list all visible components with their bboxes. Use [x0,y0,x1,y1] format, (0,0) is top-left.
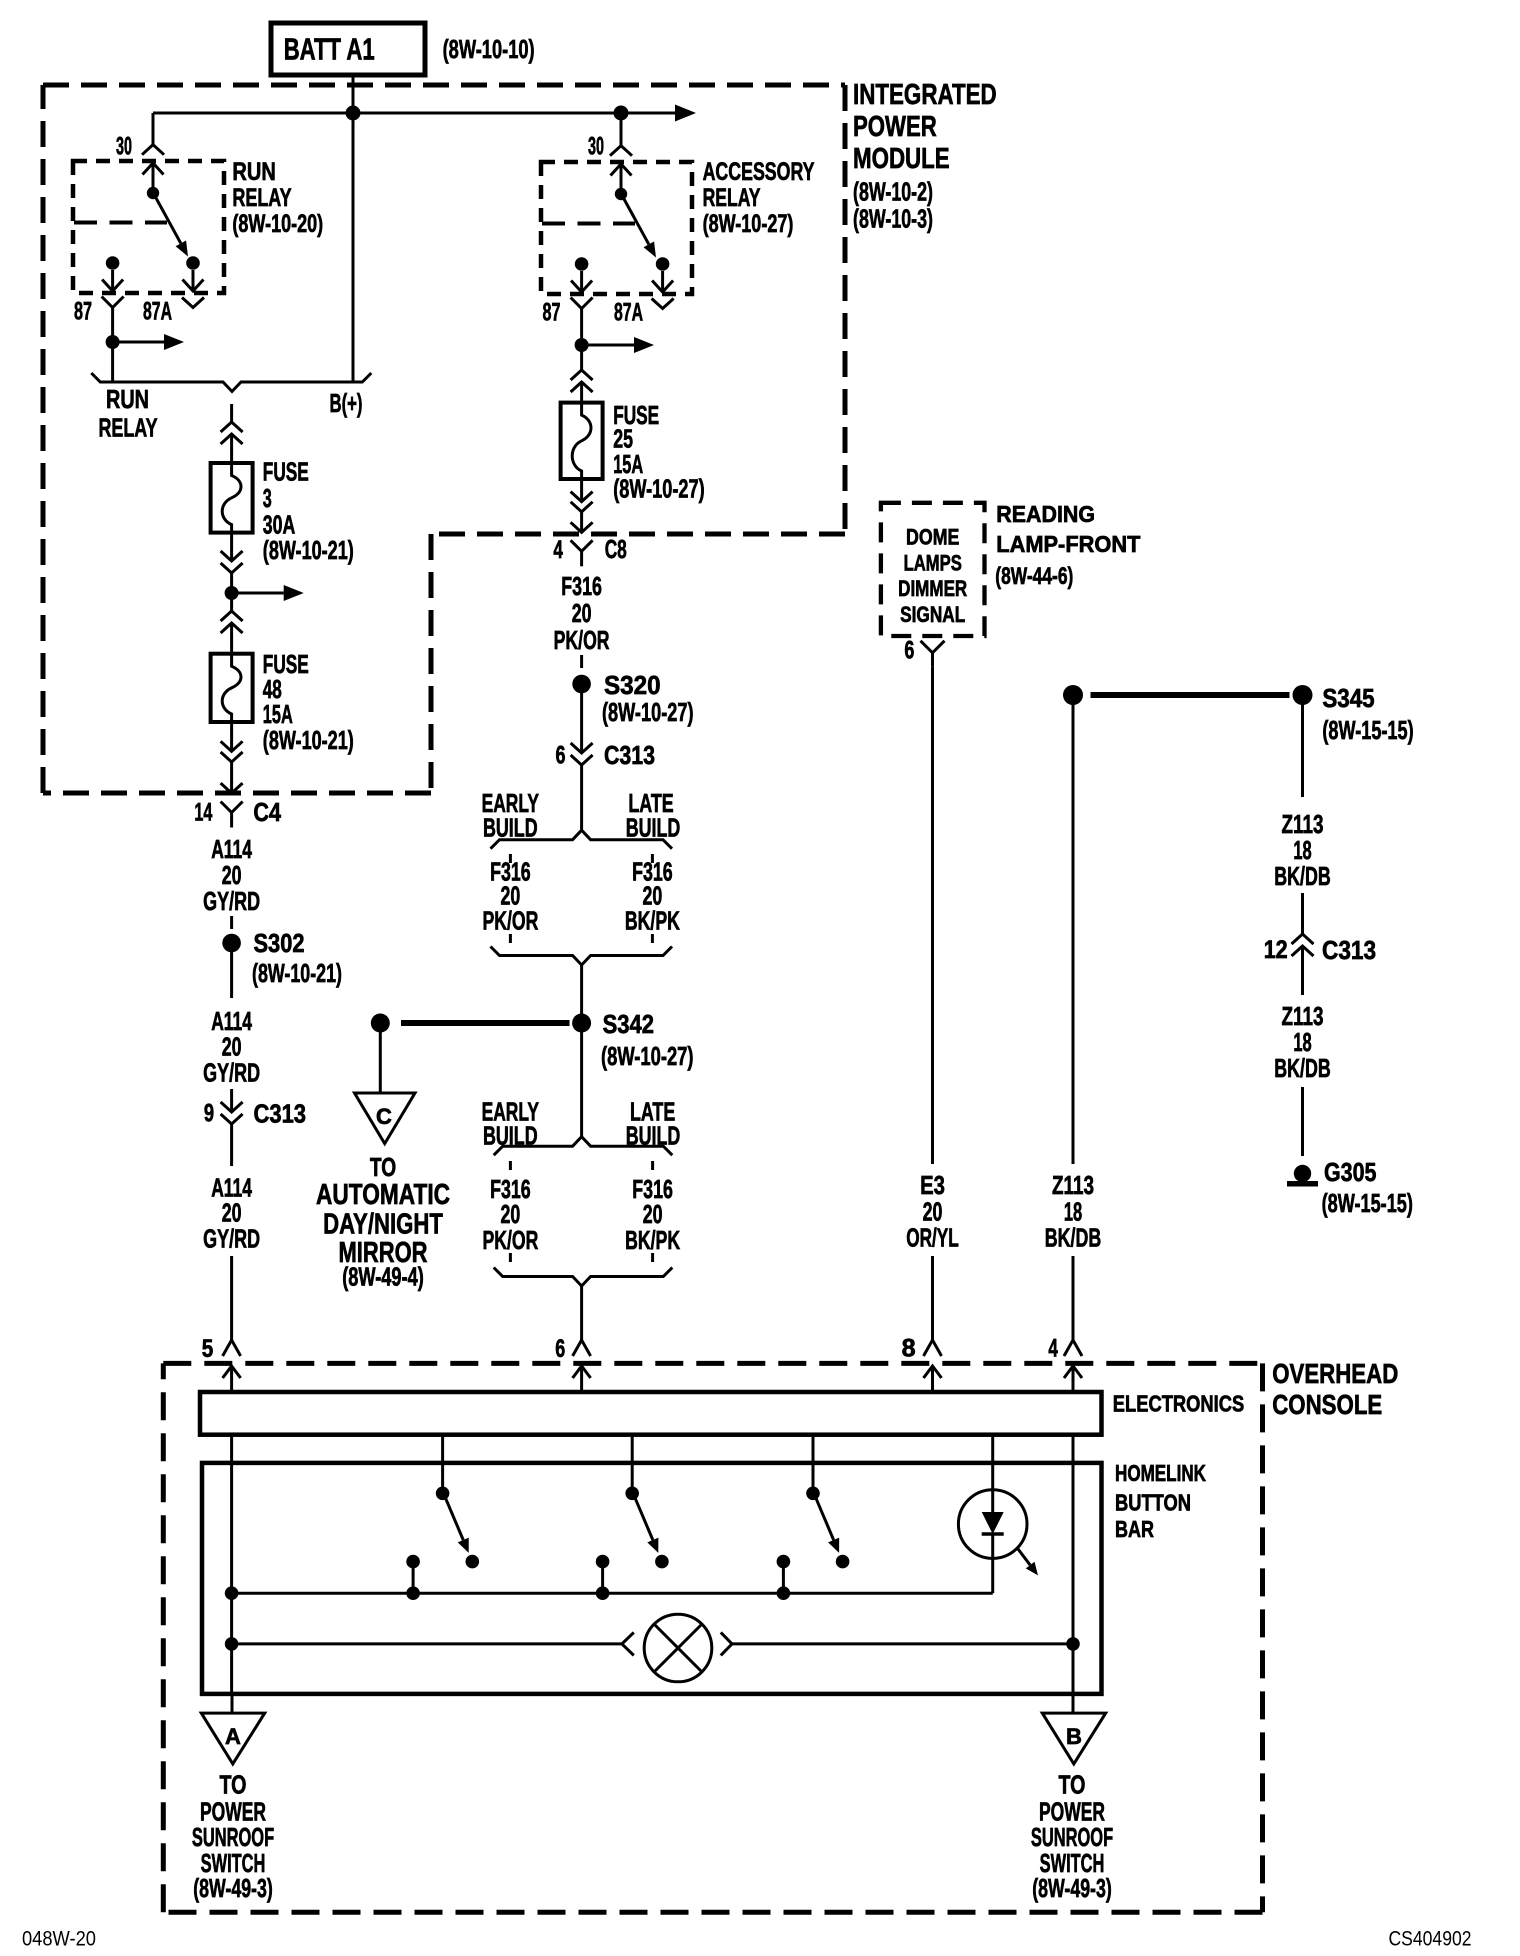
svg-text:S342: S342 [603,1009,654,1039]
svg-text:C4: C4 [253,797,281,827]
wire pin5 to triangle A [230,1593,233,1712]
svg-text:C313: C313 [254,1099,307,1129]
lamp bus right [732,1637,1080,1651]
svg-text:B: B [1066,1724,1082,1749]
connector C4 exit arrow [221,783,243,793]
svg-text:PK/OR: PK/OR [554,625,610,655]
fuse F25 [561,403,603,479]
run relay 87 terminal arrow [102,270,123,291]
svg-text:RELAY: RELAY [703,184,761,212]
console pin 8 [902,1335,942,1393]
dome box pin 6 [904,637,944,667]
homelink LED diode [982,1512,1004,1534]
dome lamps dimmer signal box [881,503,985,636]
svg-text:4: 4 [553,536,563,564]
svg-text:C: C [376,1104,392,1129]
switch 1 common dot [406,1555,420,1593]
wire pin5 through electronics [230,1435,233,1594]
reading lamp title [995,501,1140,590]
wire label Z113 18 BK/DB (upper right) [1274,809,1331,891]
run relay label [232,158,323,238]
splice S342 [371,1009,694,1071]
svg-text:(8W-49-4): (8W-49-4) [342,1262,424,1292]
svg-text:BATT A1: BATT A1 [284,31,375,66]
switch 2 pivot dot [625,1487,639,1501]
svg-text:BK/DB: BK/DB [1274,861,1331,891]
wire S342 down [580,1032,583,1137]
off-page connector A [201,1713,264,1764]
wire to console pin 4 [1072,1256,1075,1340]
fuse F3 [211,463,253,533]
svg-text:READING: READING [996,501,1095,527]
label TO AUTOMATIC DAY/NIGHT MIRROR [316,1152,450,1292]
electronics label [1113,1391,1244,1417]
wire label E3 20 OR/YL [906,1170,959,1253]
stub early (2a) [509,1161,512,1170]
junction dot below fuse 3 [225,586,239,600]
ground G305 [1287,1157,1413,1218]
svg-text:87A: 87A [614,299,643,327]
svg-text:RUN: RUN [232,158,275,186]
svg-text:8: 8 [902,1335,916,1363]
svg-text:87A: 87A [143,298,172,326]
pin 87 accessory relay [543,298,593,327]
wire BATT A1 to B(+) bus [352,75,355,113]
svg-text:BK/DB: BK/DB [1274,1053,1331,1083]
switch 1 pivot dot [436,1487,450,1501]
wire brace to fuse 3 [230,404,233,422]
console pin 6 [555,1335,590,1392]
run relay box [73,161,224,293]
svg-text:(8W-49-3): (8W-49-3) [193,1873,273,1903]
wire label F316 20 BK/PK (late 2) [625,1174,680,1255]
run relay coil divider [74,221,167,225]
svg-text:BAR: BAR [1115,1516,1154,1542]
electronics box [200,1392,1102,1435]
splice S320 [572,670,693,727]
off-page connector C to mirror [355,1093,416,1144]
svg-text:OR/YL: OR/YL [906,1223,959,1253]
svg-text:B(+): B(+) [330,388,363,418]
homelink LED wire lower [991,1534,994,1593]
connector C313 pin 6 [556,740,656,770]
lamp chevron left [622,1632,634,1655]
inline connector below fuse 3 [221,551,243,611]
brace RUN RELAY / B(+) [91,373,371,392]
footer sheet number [22,1928,96,1951]
wire accessory 87 down [580,323,583,371]
bus B+ horizontal with arrow [153,105,696,122]
arrow feed below fuse 3 [232,585,304,601]
overhead console dashed outline [163,1363,1262,1912]
label RUN RELAY [99,384,158,443]
inline connector above fuse 3 [221,422,243,463]
svg-text:(8W-10-27): (8W-10-27) [601,1041,694,1071]
switch 3 contact dot [836,1555,850,1569]
LED emission arrow [1018,1549,1038,1575]
accessory relay contact 87A dot [656,257,670,271]
console title [1272,1358,1398,1420]
wire to ground G305 [1301,1087,1304,1156]
svg-text:TO: TO [1059,1770,1086,1800]
label (8W-10-10) [443,34,535,64]
svg-text:DOME: DOME [906,525,959,550]
svg-text:DAY/NIGHT: DAY/NIGHT [323,1209,443,1241]
svg-text:LAMPS: LAMPS [904,550,962,575]
console lamp [644,1614,712,1682]
wire S320 down [580,693,583,753]
arrow accessory 87 feed [582,337,654,353]
lamp chevron right [721,1632,732,1655]
svg-text:SIGNAL: SIGNAL [900,602,965,627]
wire to console pin 5 [230,1256,233,1340]
switch 1 wire [441,1435,444,1494]
svg-text:LAMP-FRONT: LAMP-FRONT [996,531,1140,557]
svg-text:BUILD: BUILD [626,813,681,843]
svg-text:(8W-10-2): (8W-10-2) [853,177,933,207]
wire run relay 87 down [111,322,114,382]
svg-text:BUTTON: BUTTON [1115,1490,1191,1516]
svg-text:RUN: RUN [106,384,149,414]
inline connector above fuse 25 [571,370,593,403]
console pin 4 [1048,1335,1082,1393]
svg-text:PK/OR: PK/OR [482,1225,538,1255]
svg-text:AUTOMATIC: AUTOMATIC [316,1179,450,1211]
svg-text:(8W-10-27): (8W-10-27) [602,697,694,727]
svg-text:C313: C313 [604,740,655,770]
svg-text:4: 4 [1048,1335,1058,1363]
label TO POWER SUNROOF SWITCH (B) [1031,1770,1113,1904]
build split brace (1) [491,830,673,849]
svg-text:30: 30 [588,133,604,161]
svg-text:CONSOLE: CONSOLE [1272,1389,1382,1420]
wire pin4 through console [1072,1435,1075,1694]
svg-text:GY/RD: GY/RD [203,1224,260,1254]
switch common bus [232,1592,993,1595]
integrated power module dashed outline [43,85,845,793]
wire bus down to run relay pin 30 [152,113,155,145]
wire label F316 20 PK/OR (C8) [554,571,610,655]
run relay common terminal arrow [143,163,164,193]
accessory relay box [541,162,692,294]
fuse F48 [211,654,253,722]
build merge brace (1) [491,947,673,966]
connector C313 pin 12 [1264,934,1376,965]
IPM title INTEGRATED POWER MODULE [853,79,997,234]
switch 3 pivot dot [806,1487,820,1501]
svg-text:6: 6 [556,742,566,770]
svg-text:6: 6 [555,1335,565,1363]
svg-text:(8W-15-15): (8W-15-15) [1322,1188,1413,1218]
svg-text:RELAY: RELAY [232,184,291,212]
svg-text:(8W-10-27): (8W-10-27) [613,474,705,504]
svg-text:GY/RD: GY/RD [203,1057,260,1087]
wire bus down to accessory relay pin 30 [620,113,623,146]
svg-text:87: 87 [543,299,561,327]
wire B+ down to brace [352,113,355,382]
switch 2 common dot [596,1555,610,1593]
wire label F316 20 PK/OR (early 2) [482,1174,538,1255]
stub early (1b) [509,934,512,943]
switch 1 contact dot [466,1555,480,1569]
svg-text:TO: TO [220,1770,247,1800]
svg-text:(8W-10-20): (8W-10-20) [232,210,323,238]
connector C313 pin 9 [204,1099,306,1129]
connector C4 [194,797,281,828]
svg-text:(8W-44-6): (8W-44-6) [995,563,1073,590]
junction dot B+/accessory [614,106,629,121]
svg-text:HOMELINK: HOMELINK [1115,1460,1206,1486]
label EARLY BUILD (1) [482,788,539,843]
accessory relay label [703,158,815,238]
accessory relay pivot dot [615,188,627,200]
run relay switch arm [156,198,188,257]
homelink box [202,1463,1102,1694]
switch 3 arm [816,1498,839,1553]
arrow run 87 feed [113,334,184,350]
accessory relay switch arm [624,199,656,258]
inline connector below fuse 48 [221,741,243,793]
pin 30 accessory relay connector [588,133,632,161]
label EARLY BUILD (2) [482,1097,539,1151]
svg-text:E3: E3 [920,1170,945,1200]
svg-text:ACCESSORY: ACCESSORY [703,158,815,186]
svg-text:ELECTRONICS: ELECTRONICS [1113,1391,1244,1417]
connector C8 [553,534,626,566]
svg-text:RELAY: RELAY [99,413,158,443]
svg-text:C313: C313 [1322,935,1376,965]
pin 87 run relay [74,297,124,326]
dome box text [898,525,967,627]
svg-text:20: 20 [572,598,592,628]
wire to C313 pin 9 [230,1089,233,1112]
switch 2 contact dot [655,1555,669,1569]
junction dot accessory 87 [575,338,589,352]
svg-text:A: A [225,1724,241,1749]
svg-text:TO: TO [370,1152,396,1182]
stub late (2b) [651,1253,654,1262]
svg-text:(8W-49-3): (8W-49-3) [1032,1873,1112,1903]
run relay pivot dot [147,187,159,199]
fuse F3 label [263,457,354,565]
wire label F316 20 BK/PK (late 1) [625,857,680,936]
switch 2 arm [635,1498,658,1553]
svg-text:(8W-10-21): (8W-10-21) [252,958,342,988]
svg-text:S345: S345 [1322,683,1374,713]
stub late (1b) [651,934,654,943]
homelink LED circle [958,1490,1027,1559]
wire S345 left down [1072,704,1075,1164]
junction dot run 87 [106,335,120,349]
svg-text:30: 30 [116,133,132,161]
svg-text:9: 9 [204,1100,214,1128]
switch 2 wire [631,1435,634,1494]
build split brace (2) [494,1137,673,1156]
svg-text:(8W-10-21): (8W-10-21) [263,535,354,565]
wire fuse 25 to C8 [580,479,583,502]
label LATE BUILD (1) [626,788,681,843]
wire to console pin 6 [580,1286,583,1341]
bus junction dots [225,1586,790,1600]
battery feed box BATT A1 [271,23,425,75]
stub early (1a) [509,854,512,863]
console pin 5 [202,1335,241,1392]
lamp bus left [225,1637,622,1651]
stub early (2b) [509,1253,512,1262]
wire C313-9 down [230,1124,233,1166]
wire label Z113 18 BK/DB (pin4) [1045,1170,1102,1253]
switch 1 arm [446,1498,469,1553]
wire S342 to mirror triangle [379,1032,382,1092]
svg-text:6: 6 [904,637,914,665]
svg-text:F316: F316 [561,571,602,601]
svg-text:INTEGRATED: INTEGRATED [853,79,997,111]
wire fuse 3 to junction [230,533,233,561]
wire C313-6 to build brace [580,765,583,831]
stub late (2a) [651,1161,654,1170]
svg-text:BK/PK: BK/PK [625,1225,680,1255]
wire label A114 20 GY/RD (3) [203,1173,260,1254]
inline connector above fuse 48 [221,611,243,654]
splice S302 [222,928,342,988]
wire to C313 pin 12 [1301,893,1304,934]
svg-text:(8W-10-27): (8W-10-27) [703,210,794,238]
svg-text:87: 87 [74,298,92,326]
svg-text:5: 5 [202,1335,214,1363]
wire label A114 20 GY/RD (2) [203,1006,260,1087]
run relay contact 87A dot [186,256,200,270]
wire stub to S320 [580,655,583,668]
pin 87A accessory relay [614,299,674,327]
footer drawing number [1389,1928,1472,1951]
label TO POWER SUNROOF SWITCH (A) [192,1770,274,1904]
svg-text:048W-20: 048W-20 [22,1928,96,1951]
svg-text:S320: S320 [604,670,661,700]
svg-text:BUILD: BUILD [483,813,538,843]
switch 3 wire [812,1435,815,1494]
svg-text:(8W-10-21): (8W-10-21) [263,725,354,755]
wire C313-12 down [1301,946,1304,995]
wire label F316 20 PK/OR (early 1) [482,857,538,936]
svg-text:CS404902: CS404902 [1389,1928,1472,1951]
homelink LED wire upper [991,1435,994,1512]
junction dot B+/BATT [346,106,361,121]
wire dome lamp signal down [931,667,934,1164]
svg-text:OVERHEAD: OVERHEAD [1272,1358,1398,1389]
wire pin4 to triangle B [1072,1694,1075,1712]
wire S302 down [230,952,233,998]
pin 87A run relay [143,298,204,326]
svg-text:14: 14 [194,799,212,827]
svg-text:BK/DB: BK/DB [1045,1223,1102,1253]
fuse F25 label [613,400,705,504]
accessory relay coil divider [542,222,635,226]
run relay contact 87 dot [106,256,120,270]
wire S345 right down [1301,704,1304,797]
wire to console pin 8 [931,1256,934,1340]
svg-text:(8W-10-3): (8W-10-3) [853,204,933,234]
pin 30 run relay connector [116,133,164,161]
svg-text:BK/PK: BK/PK [625,906,680,936]
label LATE BUILD (2) [626,1097,681,1151]
svg-text:DIMMER: DIMMER [898,576,967,601]
svg-text:G305: G305 [1324,1157,1376,1187]
build merge brace (2) [494,1268,673,1287]
svg-text:POWER: POWER [853,111,937,143]
wire brace to S342 [580,965,583,1015]
svg-text:S302: S302 [254,928,305,958]
run relay 87A terminal arrow [183,270,204,291]
svg-text:C8: C8 [605,534,627,564]
svg-text:(8W-15-15): (8W-15-15) [1322,715,1413,745]
svg-text:12: 12 [1264,936,1288,964]
inline connector below fuse 25 [571,492,593,533]
svg-text:3: 3 [263,483,272,513]
accessory relay 87A terminal arrow [652,271,673,292]
label B(+) [330,388,363,418]
accessory relay common terminal arrow [611,164,632,194]
wire stub to S302 [230,916,233,929]
off-page connector B [1042,1713,1105,1764]
accessory relay 87 terminal arrow [571,271,592,292]
svg-text:(8W-10-10): (8W-10-10) [443,34,535,64]
accessory relay contact 87 dot [575,257,589,271]
connector C8 exit arrow [571,522,593,532]
stub late (1a) [651,854,654,863]
homelink label [1115,1460,1206,1542]
fuse F48 label [263,649,354,755]
wire label A114 20 GY/RD (1) [203,834,260,916]
wire fuse 48 to C4 [230,722,233,751]
splice S345 [1063,683,1414,745]
svg-text:MODULE: MODULE [853,143,950,175]
switch 3 common dot [777,1555,791,1593]
svg-text:GY/RD: GY/RD [203,886,260,916]
wire label Z113 18 BK/DB (lower right) [1274,1001,1331,1083]
svg-text:PK/OR: PK/OR [482,906,538,936]
svg-text:Z113: Z113 [1052,1170,1094,1200]
